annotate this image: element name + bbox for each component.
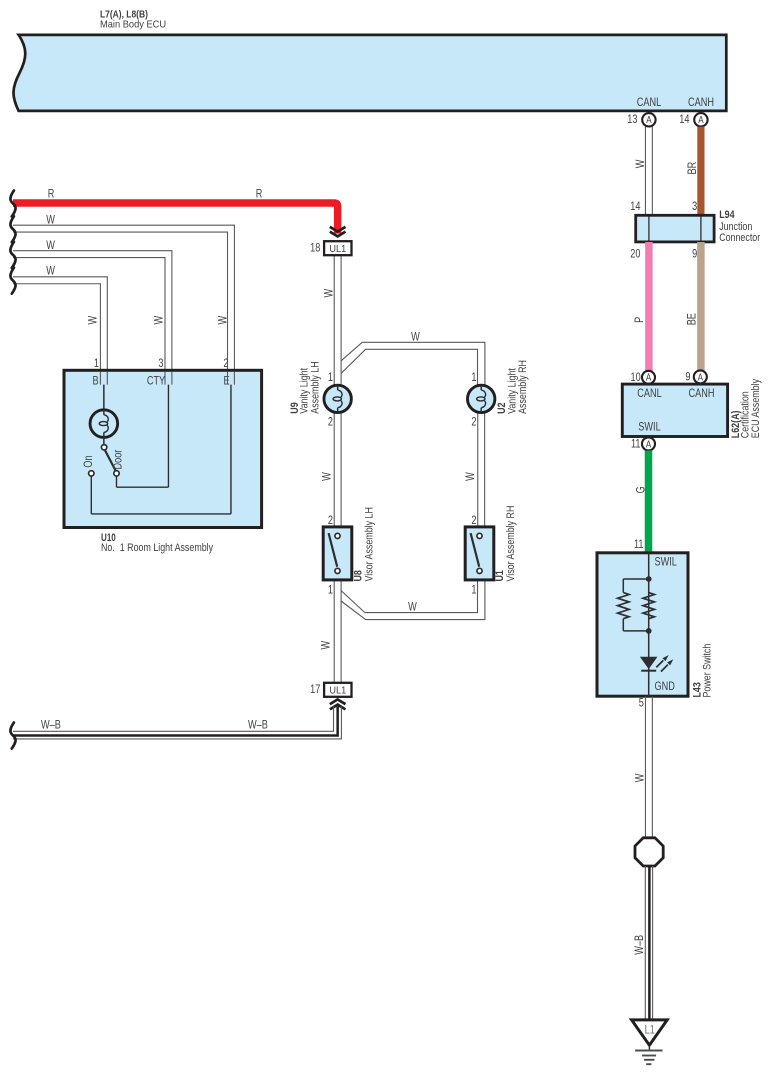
svg-text:W–B: W–B bbox=[634, 935, 646, 955]
svg-text:Visor Assembly RH: Visor Assembly RH bbox=[506, 506, 518, 582]
svg-text:W–B: W–B bbox=[41, 719, 61, 731]
svg-text:R: R bbox=[48, 189, 55, 201]
svg-text:17: 17 bbox=[310, 684, 320, 696]
svg-text:2: 2 bbox=[328, 515, 333, 527]
svg-text:Door: Door bbox=[113, 449, 125, 469]
svg-text:CANL: CANL bbox=[637, 97, 662, 109]
svg-text:Assembly LH: Assembly LH bbox=[310, 361, 322, 413]
svg-text:10: 10 bbox=[631, 372, 641, 384]
svg-text:3: 3 bbox=[158, 358, 163, 370]
svg-text:2: 2 bbox=[223, 358, 228, 370]
svg-text:14: 14 bbox=[679, 114, 689, 126]
svg-text:W: W bbox=[465, 472, 477, 481]
svg-text:9: 9 bbox=[685, 372, 690, 384]
svg-text:UL1: UL1 bbox=[329, 243, 346, 255]
svg-text:SWIL: SWIL bbox=[638, 422, 661, 434]
svg-text:W: W bbox=[320, 641, 332, 650]
svg-text:B: B bbox=[92, 376, 98, 388]
svg-text:P: P bbox=[634, 317, 646, 323]
svg-text:CANH: CANH bbox=[688, 97, 714, 109]
svg-text:W: W bbox=[153, 316, 165, 325]
svg-text:Connector: Connector bbox=[719, 232, 761, 244]
svg-text:A: A bbox=[698, 114, 703, 125]
svg-text:2: 2 bbox=[471, 417, 476, 429]
svg-text:CANL: CANL bbox=[637, 388, 662, 400]
svg-text:W: W bbox=[46, 240, 55, 252]
svg-text:Assembly RH: Assembly RH bbox=[518, 360, 530, 414]
svg-text:G: G bbox=[635, 486, 647, 493]
svg-text:A: A bbox=[646, 439, 651, 450]
svg-text:1: 1 bbox=[471, 372, 476, 384]
svg-text:1: 1 bbox=[471, 585, 476, 597]
svg-text:W: W bbox=[635, 773, 647, 782]
svg-text:3: 3 bbox=[692, 201, 697, 213]
svg-text:A: A bbox=[646, 372, 651, 383]
svg-text:9: 9 bbox=[692, 248, 697, 260]
svg-text:2: 2 bbox=[471, 515, 476, 527]
svg-text:13: 13 bbox=[627, 114, 637, 126]
svg-text:11: 11 bbox=[634, 539, 644, 551]
svg-text:No. 1 Room Light Assembly: No. 1 Room Light Assembly bbox=[101, 542, 213, 554]
svg-text:20: 20 bbox=[630, 248, 640, 260]
svg-text:W: W bbox=[218, 316, 230, 325]
svg-text:UL1: UL1 bbox=[329, 685, 346, 697]
svg-text:W: W bbox=[322, 472, 334, 481]
svg-text:Visor Assembly LH: Visor Assembly LH bbox=[364, 507, 376, 581]
svg-text:SWIL: SWIL bbox=[655, 557, 678, 569]
svg-text:GND: GND bbox=[655, 681, 676, 693]
svg-text:18: 18 bbox=[310, 243, 320, 255]
svg-text:Main Body ECU: Main Body ECU bbox=[100, 19, 166, 30]
svg-text:W: W bbox=[323, 289, 335, 298]
svg-text:1: 1 bbox=[328, 585, 333, 597]
svg-text:R: R bbox=[256, 189, 263, 201]
svg-text:11: 11 bbox=[631, 439, 641, 451]
svg-text:W: W bbox=[411, 331, 420, 343]
svg-text:BE: BE bbox=[686, 313, 698, 325]
svg-text:L94: L94 bbox=[719, 209, 735, 221]
svg-text:CTY: CTY bbox=[147, 376, 165, 388]
svg-text:W–B: W–B bbox=[248, 719, 268, 731]
svg-text:E: E bbox=[223, 376, 229, 388]
svg-text:W: W bbox=[635, 159, 647, 168]
svg-text:CANH: CANH bbox=[689, 388, 715, 400]
svg-text:On: On bbox=[83, 455, 95, 467]
svg-text:BR: BR bbox=[687, 161, 699, 174]
svg-text:A: A bbox=[698, 372, 703, 383]
svg-text:ECU Assembly: ECU Assembly bbox=[751, 379, 763, 438]
svg-text:L7(A), L8(B): L7(A), L8(B) bbox=[100, 9, 148, 20]
svg-text:W: W bbox=[88, 316, 100, 325]
svg-text:1: 1 bbox=[328, 372, 333, 384]
svg-text:1: 1 bbox=[94, 358, 99, 370]
svg-text:W: W bbox=[408, 602, 417, 614]
svg-text:Power Switch: Power Switch bbox=[702, 644, 714, 698]
svg-text:A: A bbox=[646, 114, 651, 125]
svg-text:2: 2 bbox=[328, 417, 333, 429]
svg-text:5: 5 bbox=[639, 697, 644, 709]
svg-text:W: W bbox=[46, 214, 55, 226]
svg-text:W: W bbox=[46, 266, 55, 278]
svg-text:14: 14 bbox=[630, 201, 640, 213]
svg-text:L1: L1 bbox=[645, 1025, 655, 1037]
